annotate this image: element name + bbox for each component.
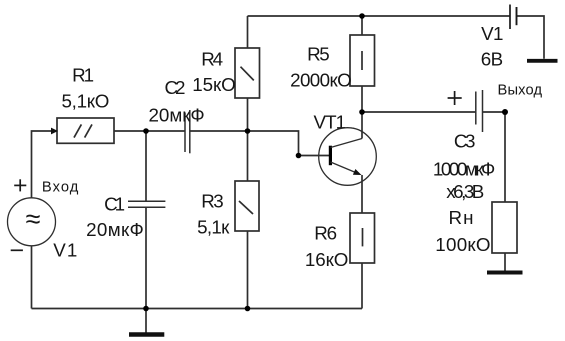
wire C1 bottom lead (145, 207, 147, 308)
svg-text:х6,3В: х6,3В (446, 181, 484, 202)
wire R3 bottom lead (247, 231, 249, 309)
svg-text:≈: ≈ (26, 204, 41, 234)
capacitor C1 (128, 200, 165, 202)
svg-text:Вход: Вход (42, 180, 79, 196)
resistor R1 (57, 118, 114, 143)
svg-text:Rн: Rн (449, 207, 474, 228)
svg-text:5,1кО: 5,1кО (62, 91, 110, 112)
wire Rn bottom lead (504, 253, 506, 271)
capacitor C2 (184, 113, 186, 153)
wire C3 to output node (483, 111, 506, 113)
wire bottom rail (32, 308, 363, 310)
svg-text:Выход: Выход (498, 82, 543, 98)
ground (load) (487, 271, 523, 275)
svg-text:C1: C1 (104, 193, 125, 214)
svg-text:V1: V1 (53, 240, 77, 261)
node C2/R4/R3 (245, 128, 251, 134)
battery V1 plate short (516, 7, 518, 25)
svg-text:16кО: 16кО (305, 249, 348, 270)
wire R3 top lead (247, 131, 249, 181)
plus C3 (448, 91, 462, 105)
wire emitter lead (361, 175, 363, 213)
svg-text:2000кО: 2000кО (290, 69, 352, 90)
resistor R4 (235, 48, 260, 98)
svg-text:R5: R5 (307, 44, 330, 65)
svg-text:20мкФ: 20мкФ (149, 105, 205, 126)
svg-text:5,1к: 5,1к (197, 217, 230, 238)
wire collector lead (361, 112, 363, 139)
svg-text:15кО: 15кО (192, 74, 235, 95)
node R3 bottom (245, 306, 251, 312)
node base (296, 153, 302, 159)
plus source (14, 179, 26, 191)
capacitor C3 (475, 92, 477, 125)
wire R5 bottom lead (361, 86, 363, 112)
minus source (11, 249, 23, 251)
svg-text:VT1: VT1 (314, 111, 347, 132)
wire base lead (299, 155, 330, 157)
arrow input (51, 128, 58, 135)
wire C2 to base corner (190, 131, 299, 156)
wire C1 top lead (145, 131, 147, 201)
ground (battery) (527, 59, 558, 63)
wire source bottom lead (31, 246, 33, 309)
wire R4 bottom lead (247, 98, 249, 131)
wire R6 bottom lead (361, 263, 363, 309)
node R1/C1 (143, 128, 149, 134)
svg-text:R1: R1 (72, 64, 94, 85)
svg-text:C2: C2 (165, 77, 186, 98)
node collector (359, 109, 365, 115)
svg-text:20мкФ: 20мкФ (86, 219, 144, 240)
resistor R5 (350, 35, 375, 86)
wire input to R1 (32, 131, 53, 198)
svg-text:R3: R3 (201, 190, 223, 211)
resistor Rn (492, 202, 517, 253)
ground (main) (145, 309, 147, 333)
wire battery to ground corner (517, 16, 545, 59)
wire R4 top lead (247, 16, 249, 48)
source V1 circle (8, 198, 56, 246)
node top rail (359, 13, 365, 19)
svg-text:1000мкФ: 1000мкФ (433, 158, 495, 179)
node C1 bottom (143, 306, 149, 312)
svg-text:R4: R4 (201, 48, 223, 69)
resistor R6 (350, 213, 375, 263)
transistor VT1 (319, 128, 377, 186)
svg-text:C3: C3 (454, 131, 476, 152)
svg-text:6В: 6В (481, 48, 503, 69)
wire R1 to C2 (114, 130, 185, 132)
svg-text:R6: R6 (314, 223, 337, 244)
wire output node to Rn (504, 112, 506, 202)
wire R5 top lead (361, 16, 363, 35)
wire collector node to C3 (362, 111, 476, 113)
svg-text:100кО: 100кО (435, 234, 490, 255)
node output (502, 109, 508, 115)
battery V1 plate long (509, 5, 511, 30)
wire top rail (248, 15, 511, 17)
svg-text:V1: V1 (481, 23, 503, 44)
resistor R3 (235, 181, 259, 231)
